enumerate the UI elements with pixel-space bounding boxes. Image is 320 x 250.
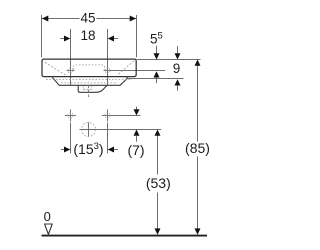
dimension 15.3 arrow right	[108, 147, 114, 153]
basin hidden dashed line above apron bottom	[61, 82, 118, 84]
fixing hole right cross	[103, 70, 111, 72]
svg-text:(7): (7)	[127, 142, 144, 158]
drain outlet cross	[80, 129, 99, 131]
dimension 9 bottom arrow	[175, 79, 181, 85]
water supply cross right	[102, 115, 113, 117]
dimension 7 top line	[113, 115, 141, 117]
drain centerline	[88, 85, 90, 97]
dimension 85 bottom arrow	[195, 228, 201, 234]
drain trap outline	[78, 85, 107, 92]
water supply cross left	[65, 115, 76, 117]
dimension 18 arrow left	[64, 36, 70, 42]
fixing hole left circle	[68, 68, 73, 73]
dimension 5.5 bottom arrow tail	[156, 78, 158, 84]
dimension 7 top arrow	[134, 109, 140, 115]
extension line B fixing hole level	[110, 70, 165, 72]
basin overflow dashed outline	[73, 65, 104, 70]
floor line	[42, 235, 208, 237]
dimension 7 top arrow tail	[136, 107, 138, 110]
basin body outline	[42, 59, 136, 77]
drain outlet dashed circle	[82, 123, 96, 137]
dimension 5.5 top arrow tail	[156, 46, 158, 54]
svg-text:(85): (85)	[185, 140, 210, 156]
dimension 53 vertical line	[157, 135, 159, 174]
dimension 15.3 arrow left	[64, 147, 70, 153]
dimension 45 extension line left	[41, 15, 43, 57]
dimension 15.3 tail right	[114, 149, 118, 151]
basin bowl underside apron	[52, 77, 127, 86]
dimension 18 arrow right	[108, 36, 114, 42]
dimension 5.5 bottom arrow	[154, 71, 160, 77]
dimension 18 tail left	[60, 38, 64, 40]
fixing hole left cross	[66, 70, 74, 72]
extension line A basin top	[137, 59, 201, 61]
dimension 53 bottom arrow	[155, 228, 161, 234]
svg-text:45: 45	[80, 11, 95, 26]
fixing hole right circle	[105, 68, 110, 73]
dimension 15.3 tail left	[61, 149, 64, 151]
dimension 7 bottom arrow tail	[136, 135, 138, 141]
dimension 18 extension line left	[70, 29, 72, 85]
dimension 15.3 extension line right	[107, 123, 109, 154]
dimension 7 bottom arrow	[134, 130, 140, 136]
dimension 5.5 top arrow	[154, 53, 160, 59]
dimension 45 line right segment	[97, 18, 137, 20]
dimension 45 arrow left	[42, 16, 48, 22]
dimension 9 top arrow tail	[177, 46, 179, 54]
svg-text:18: 18	[80, 28, 95, 43]
dimension 18 extension line right	[107, 29, 109, 85]
dimension 85 top arrow	[195, 60, 201, 66]
dimension 9 top arrow	[175, 53, 181, 59]
basin hidden dashed bowl bottom line	[46, 79, 132, 81]
dimension 85 vertical line	[197, 65, 199, 141]
dimension 45 extension line right	[136, 15, 138, 57]
dimension 7 bottom line	[96, 129, 161, 131]
svg-text:9: 9	[173, 61, 181, 76]
basin interior dashed slope left	[45, 62, 68, 76]
dimension 53 top arrow	[155, 130, 161, 136]
dimension 18 tail right	[114, 38, 118, 40]
dimension 9 bottom arrow tail	[177, 85, 179, 91]
extension line C basin underside	[127, 78, 183, 80]
dimension 45 arrow right	[130, 16, 136, 22]
drain trap hidden pipe dashes	[83, 86, 85, 90]
svg-text:(153): (153)	[73, 141, 103, 157]
datum triangle	[45, 224, 53, 234]
svg-text:(53): (53)	[146, 175, 171, 191]
dimension 15.3 extension line left	[70, 123, 72, 154]
dimension 45 line left segment	[42, 18, 80, 20]
basin interior dashed slope right	[117, 61, 134, 75]
svg-text:0: 0	[44, 209, 51, 224]
